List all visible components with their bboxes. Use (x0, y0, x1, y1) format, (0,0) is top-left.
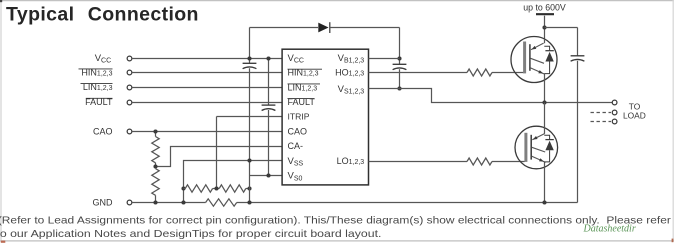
wire chain left stub (184, 188, 186, 190)
capacitor C4 bus (571, 55, 585, 57)
resistor R7 gate (467, 158, 492, 165)
terminal FAULT (127, 100, 132, 105)
IC U1 body (282, 49, 368, 185)
svg-text:(Refer to Lead Assignments for: (Refer to Lead Assignments for correct p… (0, 216, 672, 227)
Q1 channel bar (529, 44, 531, 71)
page bottom rule (0, 240, 674, 242)
page corner mark (0, 0, 2, 2)
page top border (0, 0, 674, 2)
wire HIN1,2,3 (132, 72, 283, 74)
terminal HIN1,2,3 (127, 70, 132, 75)
wire CAO (132, 131, 283, 133)
wire diode anode (250, 27, 319, 29)
diode D2 freewheel (544, 46, 549, 51)
resistor R4 (219, 185, 246, 192)
terminal load phase 2 (612, 110, 617, 115)
terminal VCC (127, 56, 132, 61)
wire VCC (132, 58, 283, 60)
Q1 gate bar (523, 42, 526, 74)
wire VCC-column x=249.7 upper (249, 28, 251, 64)
wire CAO to R1 (155, 132, 157, 137)
Q2 emitter lead (544, 162, 546, 203)
wire bus drop upper (577, 28, 579, 56)
resistor R5 shunt (206, 199, 237, 206)
wire CA- elbow (156, 147, 283, 167)
Q2 channel bar (530, 135, 532, 160)
Q2 emitter stroke (532, 156, 546, 162)
node Q2 emitter / GND junction (542, 200, 546, 204)
Q2 collector lead (544, 103, 546, 134)
node C2/VS0 junction (266, 173, 270, 177)
node C1/VSS junction (247, 158, 251, 162)
bottom-right red mark (672, 239, 674, 243)
svg-text:Typical Connection: Typical Connection (6, 3, 199, 25)
wire bootstrap drop (399, 28, 401, 65)
resistor R1 (152, 137, 159, 163)
wire VCC-column x=268.5 lower (268, 110, 270, 176)
wire HO left (369, 72, 468, 74)
wire R2 to GND (155, 195, 157, 202)
wire load phase 3 dashed (591, 121, 612, 123)
node CAO/R1 junction (153, 129, 157, 133)
terminal CAO (127, 129, 132, 134)
wire ITRIP vertical (216, 117, 218, 189)
terminal load phase 3 (612, 119, 617, 124)
svg-text:ITRIP: ITRIP (288, 112, 310, 122)
diode D1 (318, 23, 328, 33)
wire GND rail right (237, 202, 578, 204)
wire rail to bus cap (545, 27, 578, 29)
node rail junction (542, 25, 546, 29)
svg-text:Datasheetdir: Datasheetdir (583, 224, 636, 235)
capacitor C1 (243, 62, 257, 64)
resistor R6 gate (467, 69, 492, 76)
Q1 emitter stroke (531, 68, 545, 74)
capacitor C2 (262, 104, 276, 106)
wire VB (369, 58, 400, 60)
node chain/VS0-column junction (247, 186, 251, 190)
node Q1 emitter / load junction (542, 100, 546, 104)
node R1/R2/CA- junction (153, 164, 157, 168)
diode D3 freewheel (544, 135, 549, 139)
wire chain mid stub (213, 188, 220, 190)
wire VS elbow to load (369, 89, 613, 103)
node VB/C3 junction (397, 56, 401, 60)
wire FAULT (132, 102, 283, 104)
terminal load phase 1 (612, 100, 617, 105)
wire rail to collector (544, 16, 546, 39)
wire LIN1,2,3 (132, 87, 283, 89)
Q2 gate bar (524, 133, 527, 162)
Q1 mid stroke (531, 58, 545, 63)
wire load phase 2 dashed (591, 112, 612, 114)
bottom-left red mark (1, 241, 6, 243)
node ITRIP/chain junction (214, 186, 218, 190)
svg-text:LOAD: LOAD (623, 111, 646, 121)
node VSS-column/chain junction (181, 186, 185, 190)
svg-text:up to 600V: up to 600V (523, 3, 566, 13)
wire R1-R2 link (155, 163, 157, 169)
terminal LIN1,2,3 (127, 85, 132, 90)
resistor R3 (185, 185, 212, 192)
wire VCC-column x=268.5 upper (268, 59, 270, 106)
Q1 emitter lead (544, 74, 546, 103)
600V rail bar (536, 13, 554, 15)
Q2 collector stroke (532, 134, 545, 140)
wire LO left (369, 161, 468, 163)
wire VS0 (250, 175, 283, 177)
wire GND rail left (132, 202, 206, 204)
svg-text:GND: GND (93, 197, 114, 207)
svg-text:CAO: CAO (288, 126, 308, 136)
wire chain right stub (246, 188, 250, 190)
node R2/GND junction (153, 200, 157, 204)
page left border (0, 0, 2, 242)
svg-text:CA-: CA- (288, 141, 304, 151)
wire LO to gate (492, 161, 525, 163)
node VSS-column/GND junction (181, 200, 185, 204)
svg-text:CAO: CAO (93, 127, 113, 137)
Q2 mid stroke (532, 147, 545, 152)
resistor R2 (152, 169, 159, 196)
node VCC/C2 junction (266, 56, 270, 60)
wire C3 to VS (399, 69, 401, 88)
wire VCC-column x=249.7 lower (249, 68, 251, 202)
wire VSS elbow (184, 161, 283, 203)
wire diode cathode (330, 27, 400, 29)
wire ITRIP horizontal (217, 116, 283, 118)
node C3/VS junction (397, 86, 401, 90)
IGBT Q1 body (511, 37, 557, 83)
Q1 collector stroke (531, 43, 544, 50)
wire HO to gate (492, 72, 523, 74)
Q1 collector stub (544, 39, 546, 43)
wire bus drop lower (577, 61, 579, 203)
capacitor C3 bootstrap (393, 63, 407, 65)
page right border (672, 0, 674, 240)
svg-text:to our Application Notes and D: to our Application Notes and DesignTips … (0, 229, 381, 240)
IGBT Q2 body (515, 126, 558, 169)
node column/GND junction (247, 200, 251, 204)
terminal GND (127, 200, 132, 205)
node VCC/C1 junction (247, 56, 251, 60)
